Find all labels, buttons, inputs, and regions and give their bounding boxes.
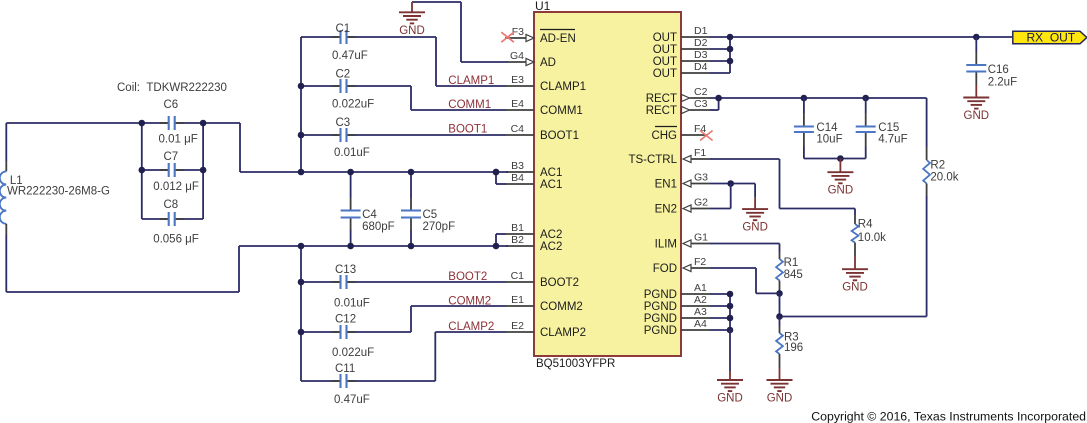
svg-text:F1: F1 [694,147,706,159]
svg-text:COMM1: COMM1 [540,105,583,117]
svg-text:0.022uF: 0.022uF [332,99,374,111]
svg-text:AC1: AC1 [540,179,562,191]
svg-text:ILIM: ILIM [655,239,677,251]
svg-text:EN1: EN1 [655,179,677,191]
svg-text:Coil: TDKWR222230: Coil: TDKWR222230 [117,82,227,94]
svg-text:680pF: 680pF [362,221,395,233]
svg-text:0.01 μF: 0.01 μF [159,134,198,146]
svg-text:AD: AD [540,57,556,69]
svg-text:BOOT1: BOOT1 [448,124,487,136]
svg-text:CLAMP2: CLAMP2 [540,327,586,339]
svg-text:C2: C2 [694,86,708,98]
svg-text:AD-EN: AD-EN [540,33,576,45]
svg-text:PGND: PGND [644,313,677,325]
svg-text:AC1: AC1 [540,167,562,179]
svg-text:B2: B2 [511,234,524,246]
svg-text:C16: C16 [988,64,1009,76]
svg-text:A2: A2 [694,294,707,306]
svg-text:GND: GND [964,110,990,122]
svg-text:R2: R2 [930,160,945,172]
svg-text:RECT: RECT [646,105,677,117]
svg-text:0.022uF: 0.022uF [332,347,374,359]
svg-text:C12: C12 [335,314,356,326]
svg-text:270pF: 270pF [423,221,456,233]
svg-text:C6: C6 [164,99,179,111]
svg-text:C4: C4 [362,209,377,221]
svg-text:Copyright © 2016, Texas Instru: Copyright © 2016, Texas Instruments Inco… [811,410,1086,423]
svg-text:GND: GND [767,393,793,405]
svg-text:OUT: OUT [653,32,677,44]
svg-text:BQ51003YFPR: BQ51003YFPR [536,358,615,370]
svg-text:G3: G3 [694,172,708,184]
svg-text:F2: F2 [694,256,706,268]
svg-text:TS-CTRL: TS-CTRL [628,154,677,166]
svg-text:AC2: AC2 [540,241,562,253]
svg-text:BOOT2: BOOT2 [540,277,579,289]
svg-text:PGND: PGND [644,301,677,313]
svg-text:COMM2: COMM2 [540,301,583,313]
svg-text:C2: C2 [336,69,351,81]
svg-text:OUT: OUT [653,68,677,80]
svg-text:C13: C13 [335,264,356,276]
svg-text:B4: B4 [511,172,524,184]
svg-text:RX_OUT: RX_OUT [1027,31,1076,45]
svg-text:GND: GND [742,222,768,234]
svg-text:G1: G1 [694,232,708,244]
svg-text:D3: D3 [694,49,708,61]
svg-text:C15: C15 [878,122,899,134]
svg-text:AC2: AC2 [540,229,562,241]
svg-text:B3: B3 [511,160,524,172]
svg-text:C3: C3 [694,98,708,110]
svg-text:0.47uF: 0.47uF [334,394,370,406]
svg-text:BOOT1: BOOT1 [540,130,579,142]
svg-text:0.012 μF: 0.012 μF [153,181,199,193]
svg-text:E4: E4 [511,98,524,110]
svg-text:CHG: CHG [651,130,677,142]
svg-text:PGND: PGND [644,289,677,301]
svg-text:C1: C1 [511,270,525,282]
svg-text:COMM2: COMM2 [448,296,491,308]
svg-text:CLAMP2: CLAMP2 [448,321,494,333]
svg-text:CLAMP1: CLAMP1 [540,81,586,93]
svg-text:E2: E2 [511,320,524,332]
svg-text:GND: GND [842,282,868,294]
svg-text:RECT: RECT [646,93,677,105]
svg-text:CLAMP1: CLAMP1 [448,75,494,87]
svg-text:PGND: PGND [644,325,677,337]
svg-text:0.056 μF: 0.056 μF [153,234,199,246]
svg-text:WR222230-26M8-G: WR222230-26M8-G [7,186,110,198]
svg-text:FOD: FOD [653,263,677,275]
svg-text:E1: E1 [511,294,524,306]
svg-text:U1: U1 [535,0,551,13]
svg-text:EN2: EN2 [655,204,677,216]
svg-text:G2: G2 [694,197,708,209]
svg-text:0.01uF: 0.01uF [334,147,370,159]
svg-text:845: 845 [784,269,803,281]
svg-text:C8: C8 [164,199,179,211]
svg-text:COMM1: COMM1 [448,99,491,111]
svg-text:GND: GND [717,393,743,405]
svg-text:D2: D2 [694,37,708,49]
svg-text:A1: A1 [694,282,707,294]
svg-text:10uF: 10uF [816,134,842,146]
svg-text:C4: C4 [511,123,525,135]
svg-text:196: 196 [784,342,803,354]
svg-text:A4: A4 [694,318,707,330]
svg-text:G4: G4 [510,50,524,62]
svg-text:R1: R1 [784,257,799,269]
svg-text:C7: C7 [164,151,179,163]
svg-text:0.01uF: 0.01uF [334,298,370,310]
svg-text:C1: C1 [336,23,351,35]
svg-text:GND: GND [399,25,425,37]
svg-text:10.0k: 10.0k [858,232,886,244]
svg-text:C5: C5 [423,209,438,221]
svg-text:0.47uF: 0.47uF [332,50,368,62]
svg-text:D1: D1 [694,25,708,37]
svg-text:A3: A3 [694,306,707,318]
svg-text:C11: C11 [335,363,355,375]
svg-text:OUT: OUT [653,44,677,56]
svg-text:4.7uF: 4.7uF [878,134,907,146]
svg-text:C14: C14 [816,122,838,134]
svg-text:OUT: OUT [653,56,677,68]
svg-text:GND: GND [828,185,854,197]
svg-text:BOOT2: BOOT2 [448,271,487,283]
svg-text:C3: C3 [336,117,351,129]
svg-text:E3: E3 [511,74,524,86]
svg-text:R4: R4 [858,219,873,231]
svg-text:2.2uF: 2.2uF [988,76,1017,88]
svg-text:B1: B1 [511,222,524,234]
svg-text:20.0k: 20.0k [930,171,958,183]
svg-text:D4: D4 [694,61,708,73]
